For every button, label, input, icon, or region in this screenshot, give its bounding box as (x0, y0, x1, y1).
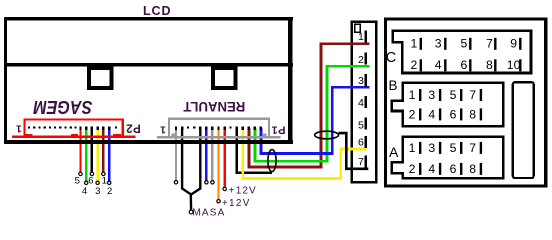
connector P2 SAGEM outline (12, 118, 136, 137)
wire P1 gray (175, 44, 369, 211)
svg-text:3: 3 (435, 37, 442, 51)
wire P1 black MASA branch right (192, 129, 201, 195)
svg-text:6: 6 (450, 107, 457, 121)
wire P2 red pin5 (79, 129, 110, 182)
svg-text:LCD: LCD (143, 4, 171, 18)
svg-text:1: 1 (358, 31, 364, 43)
P1 terminal circles (174, 181, 177, 184)
svg-text:8: 8 (469, 162, 476, 176)
P1 pin dots (187, 126, 232, 128)
P2 pin dots (28, 126, 117, 128)
wire P1 maroon to D1 (249, 44, 369, 167)
svg-text:3: 3 (95, 186, 100, 197)
svg-text:+12V: +12V (229, 186, 257, 197)
svg-text:3: 3 (428, 88, 435, 102)
wire P2 green pin4 (85, 129, 87, 182)
svg-text:2: 2 (107, 186, 112, 197)
svg-text:SAGEM: SAGEM (33, 97, 93, 117)
ISO block outer box (386, 19, 546, 186)
svg-text:4: 4 (82, 186, 87, 197)
P2 pin caps (79, 127, 110, 130)
svg-text:9: 9 (510, 37, 517, 51)
svg-text:6: 6 (461, 58, 468, 72)
svg-text:+12V: +12V (222, 198, 251, 209)
D keying box (355, 24, 361, 32)
svg-text:2: 2 (409, 107, 416, 121)
svg-text:1: 1 (409, 88, 416, 102)
svg-text:5: 5 (75, 175, 80, 186)
svg-text:8: 8 (486, 58, 493, 72)
wire P1 black MASA branch left (182, 129, 191, 211)
svg-text:2: 2 (358, 54, 364, 66)
P2 terminal circles (79, 172, 227, 214)
wire P1 yellow to D6 (243, 129, 367, 179)
svg-text:1: 1 (411, 37, 418, 51)
ISO section C box (393, 31, 531, 73)
mounting tab 2 (213, 68, 236, 88)
svg-text:MASA: MASA (192, 208, 225, 219)
LCD module box (4, 17, 293, 144)
shield loop ellipse (horizontal, around risers) (315, 131, 339, 139)
MASA terminal circle (189, 210, 193, 214)
svg-text:8: 8 (469, 107, 476, 121)
wire P1 black shield to loop (237, 129, 272, 173)
svg-text:5: 5 (461, 37, 468, 51)
svg-text:7: 7 (469, 88, 476, 102)
ISO blank slot box (513, 82, 534, 178)
svg-text:RENAULT: RENAULT (183, 99, 245, 115)
svg-text:4: 4 (435, 58, 442, 72)
svg-text:2: 2 (411, 58, 418, 72)
svg-text:6: 6 (88, 175, 93, 186)
shield loop ellipse (vertical, around bus wires) (268, 150, 276, 172)
svg-text:4: 4 (358, 97, 364, 109)
svg-text:C: C (386, 50, 396, 66)
wire P1 blue to terminal (205, 129, 207, 182)
ISO section A box (392, 137, 503, 179)
LCD board bottom edge (5, 140, 294, 144)
wire P1 green to D2 (255, 66, 369, 161)
ISO section B box (392, 83, 503, 126)
wire P2 blue pin2 (108, 129, 110, 182)
wire P2 maroon pin1 (102, 129, 104, 173)
wire P2 black pin6 (91, 129, 93, 173)
wire P1 blue to D3 (261, 87, 369, 153)
P1 pin caps (175, 127, 262, 130)
svg-text:7: 7 (469, 141, 476, 155)
svg-text:5: 5 (450, 141, 457, 155)
svg-text:7: 7 (358, 156, 364, 168)
svg-text:5: 5 (358, 119, 364, 131)
svg-text:3: 3 (358, 75, 364, 87)
svg-text:B: B (389, 78, 398, 93)
svg-text:P1: P1 (271, 124, 285, 136)
wire P1 red +12V (223, 129, 225, 187)
svg-text:1: 1 (16, 123, 22, 135)
svg-text:P2: P2 (126, 121, 141, 133)
svg-text:10: 10 (507, 58, 521, 72)
svg-text:1: 1 (160, 123, 166, 135)
svg-text:4: 4 (428, 107, 435, 121)
shield wire to D7 (338, 133, 368, 169)
wire P1 gray 2 (211, 129, 213, 182)
connector P1 RENAULT outline (157, 118, 281, 139)
svg-text:A: A (389, 144, 399, 160)
svg-text:6: 6 (450, 162, 457, 176)
wire P1 orange +12V (217, 129, 219, 200)
svg-text:5: 5 (450, 88, 457, 102)
wire P2 yellow pin3 (96, 129, 98, 182)
svg-text:2: 2 (409, 162, 416, 176)
connector D outline (352, 22, 376, 183)
svg-text:3: 3 (428, 141, 435, 155)
mounting tab 1 (89, 68, 112, 88)
svg-text:6: 6 (358, 137, 364, 149)
svg-text:1: 1 (409, 141, 416, 155)
svg-text:7: 7 (486, 37, 493, 51)
svg-text:4: 4 (428, 162, 435, 176)
svg-text:1: 1 (102, 175, 107, 186)
